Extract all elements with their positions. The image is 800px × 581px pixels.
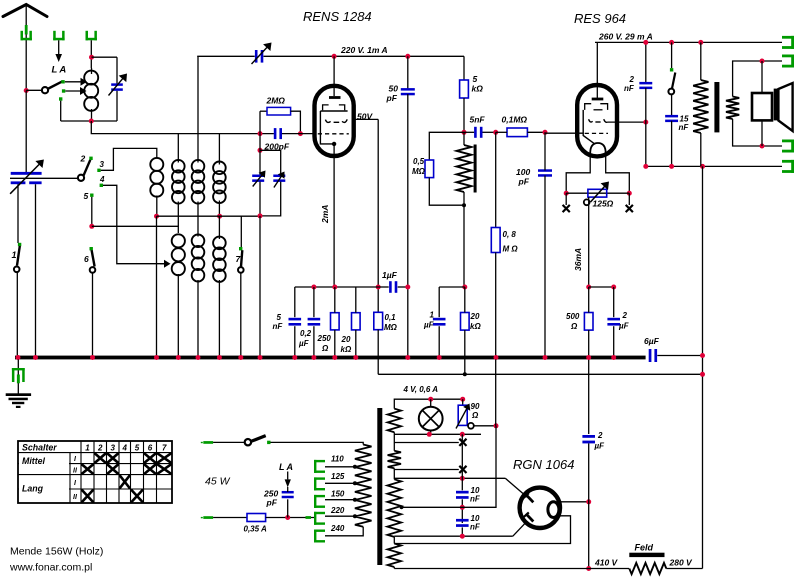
label LA2: [279, 462, 293, 472]
node 1uF1 right: [405, 285, 410, 290]
resistor R-08M: [491, 228, 500, 253]
wire 02uF leads: [313, 287, 315, 356]
svg-text:6: 6: [84, 254, 89, 264]
node wiper: [494, 423, 499, 428]
cap 250pF: [282, 491, 294, 498]
node RENS plate: [332, 54, 337, 59]
RENS screen corner L: [323, 105, 329, 110]
resistor R-250: [331, 313, 340, 330]
node bus junction: [494, 355, 499, 360]
cap 6uF: [649, 349, 657, 362]
wire 2nF upper: [645, 42, 647, 83]
trimmer C-ant arrow: [109, 74, 128, 96]
node 464-287: [462, 285, 467, 290]
terminal SPK4: [782, 160, 794, 173]
svg-text:150: 150: [331, 490, 345, 499]
node bus junction: [405, 355, 410, 360]
node fuse dot: [285, 515, 290, 520]
contact S7: [239, 247, 242, 250]
wire tap150: [325, 499, 355, 501]
wire c3 to coilA: [101, 148, 157, 170]
terminal ANT2: [53, 31, 64, 41]
node L2 lamp: [427, 432, 432, 437]
node 5k-5nF: [462, 130, 467, 135]
RES filament dome: [590, 143, 606, 153]
varcap C1 top plate: [11, 172, 42, 175]
Feld bar: [629, 553, 664, 557]
wire 5nF leads: [464, 131, 496, 133]
trafo core: [377, 408, 382, 565]
wire mains to trafo: [271, 442, 364, 444]
RENS cathode dot: [332, 142, 336, 146]
label 100pF: [516, 167, 530, 187]
wire screen down: [377, 119, 379, 312]
svg-text:µF: µF: [298, 339, 310, 348]
switch tone pivot: [668, 89, 674, 95]
node 02uF top: [311, 285, 316, 290]
node coilD bottom: [217, 214, 222, 219]
wire plate line: [646, 165, 782, 167]
cap 2nF: [639, 82, 652, 89]
label 220: [330, 506, 345, 515]
resistor R-01M2: [374, 312, 383, 329]
wire coilB bottom: [177, 202, 179, 227]
svg-text:kΩ: kΩ: [472, 84, 484, 94]
coil A: [150, 158, 163, 197]
svg-text:Mittel: Mittel: [22, 456, 46, 466]
wire 50pF lower: [407, 94, 409, 356]
wire 125 right X: [628, 193, 630, 205]
svg-text:RGN 1064: RGN 1064: [513, 457, 574, 472]
wire tap125: [325, 482, 355, 484]
wire 100pF upper: [544, 132, 546, 170]
svg-text:3: 3: [111, 444, 116, 453]
OT secondary: [726, 97, 739, 120]
coil C: [192, 160, 205, 204]
label 01M2: [384, 313, 398, 332]
label 220V: [340, 45, 388, 55]
plug 240: [314, 530, 325, 543]
Feld choke: [629, 563, 666, 574]
node 2nF top: [643, 40, 648, 45]
label 240: [330, 524, 345, 533]
coil L-ant: [84, 71, 98, 111]
terminal ANT1: [21, 31, 32, 41]
wire antenna down: [25, 5, 27, 91]
svg-text:90: 90: [471, 402, 480, 411]
wire coilE to bus: [177, 274, 179, 356]
svg-text:0, 8: 0, 8: [503, 230, 517, 239]
lamp: [419, 407, 443, 431]
wire fil-bot line: [394, 535, 513, 537]
wire 1uF2 lower: [438, 326, 440, 356]
node Bplus bus: [0, 0, 1, 1]
wire tone top: [671, 42, 673, 68]
wire spk bottom: [761, 120, 763, 146]
label 90: [471, 402, 480, 420]
switch S2 lever: [83, 160, 90, 177]
wire OT primary bottom: [700, 133, 702, 166]
svg-text:20: 20: [341, 335, 351, 344]
wire 08M top: [495, 132, 497, 227]
wire 2uF1 leads: [613, 287, 615, 356]
node filbot 10nF: [460, 534, 465, 539]
node ant junction: [24, 88, 29, 93]
coil L-ant stub top: [91, 68, 93, 74]
node coil top: [89, 55, 94, 60]
node OT top: [698, 40, 703, 45]
RES plate bar: [592, 98, 604, 101]
switch S2 pivot: [78, 175, 84, 181]
label 2mA: [320, 205, 330, 224]
node 374 frame: [700, 372, 705, 377]
wire Bplus lower: [588, 443, 590, 568]
contact S6: [90, 247, 93, 250]
label 200pF: [264, 142, 290, 152]
switch mains pivot: [245, 439, 251, 445]
wire OT primary top: [700, 42, 702, 80]
label 280V: [669, 558, 694, 568]
switch S6 pivot: [90, 267, 96, 273]
switch LA lever: [48, 82, 63, 89]
winding W2: [388, 451, 401, 469]
arrow c4 into coilE: [160, 260, 171, 268]
wire W4 top line: [394, 516, 570, 544]
svg-text:2: 2: [629, 75, 635, 84]
label 150: [331, 490, 345, 499]
wire 10nF mid: [461, 499, 463, 523]
label 2nF: [624, 75, 635, 93]
wire coilF to bus: [197, 280, 199, 356]
wire 0.8M below-bus: [495, 359, 497, 425]
wire 125 left X: [565, 193, 567, 205]
X right: [626, 205, 633, 212]
wire y287 res seg: [589, 286, 614, 288]
contact tone switch: [670, 68, 673, 71]
resistor R-20k2: [461, 313, 470, 331]
speaker bar: [774, 89, 779, 121]
coil D stub: [218, 134, 220, 165]
svg-text:Ω: Ω: [471, 411, 479, 420]
wire 1uF1 leads: [378, 286, 408, 288]
wire coilA bottom: [156, 196, 158, 217]
label 10nF2: [470, 514, 481, 532]
svg-text:3: 3: [100, 160, 105, 169]
svg-text:1: 1: [85, 444, 90, 453]
coil B: [172, 160, 185, 204]
label 250pF: [263, 489, 278, 508]
node screen-287: [376, 285, 381, 290]
wire S6 to bus: [92, 272, 94, 356]
RES screen dash: [594, 109, 603, 111]
svg-text:2: 2: [97, 444, 103, 453]
svg-text:20: 20: [470, 312, 480, 321]
wire coilG to bus: [218, 280, 220, 356]
wire W4 bottom: [393, 567, 395, 569]
wire 05M bottom: [429, 178, 464, 206]
wire coilA to bus: [156, 216, 158, 356]
node c5 line: [89, 224, 94, 229]
switch mains lever: [251, 436, 265, 442]
switch S1 lever: [17, 246, 20, 266]
svg-text:pF: pF: [386, 93, 398, 103]
svg-text:L A: L A: [279, 462, 293, 472]
RGN filament tick2: [524, 512, 534, 521]
node bus left1: [16, 355, 21, 360]
label 1: [12, 250, 17, 260]
wire antenna to varcap: [25, 91, 27, 173]
label Mende: [10, 546, 103, 558]
plug 125: [314, 477, 325, 490]
wire OT sec bottom: [733, 119, 782, 146]
label 7: [236, 254, 242, 264]
RENS plate bar: [329, 96, 341, 99]
label 2MOhm: [266, 96, 286, 106]
svg-text:pF: pF: [518, 177, 530, 187]
svg-text:µF: µF: [618, 322, 630, 331]
resistor R-5k: [460, 80, 469, 98]
cap 5nF2: [289, 318, 302, 326]
node bus junction: [292, 355, 297, 360]
svg-text:1: 1: [430, 311, 435, 320]
label RES964: [574, 11, 626, 26]
RENS cathode lead: [320, 111, 333, 144]
wire fil-bot diag: [513, 521, 528, 536]
node plate line left: [643, 164, 648, 169]
svg-text:nF: nF: [679, 123, 690, 132]
node spk bottom: [760, 144, 765, 149]
svg-text:nF: nF: [624, 84, 635, 93]
node 125 right: [627, 191, 632, 196]
label RENS1284: [303, 9, 372, 24]
trimmer C-ant: [111, 83, 123, 91]
wire varcap left down: [17, 184, 19, 243]
wire 2M box left: [259, 111, 261, 133]
cap 10nF-1: [456, 491, 469, 499]
label 4: [99, 175, 105, 184]
wire L2 lampline: [394, 433, 481, 435]
RES screen corner R: [600, 104, 607, 110]
switch S7 lever: [241, 250, 242, 266]
svg-text:7: 7: [162, 444, 167, 453]
wire W2-W3 link: [393, 470, 395, 480]
svg-text:4: 4: [99, 175, 105, 184]
node trimmer top: [258, 148, 263, 153]
svg-text:280 V: 280 V: [669, 558, 694, 568]
node tap 125: [353, 481, 357, 485]
wire lamp stubs: [430, 399, 432, 434]
wire grid RES: [545, 132, 584, 135]
cap 100pF: [538, 169, 552, 176]
wire bottom line right: [666, 568, 702, 570]
contact S2-2: [89, 157, 92, 160]
resistor R-2M: [267, 107, 291, 115]
svg-text:4: 4: [122, 444, 128, 453]
wire 1uF2 upper: [438, 287, 440, 317]
wire 464 down: [463, 205, 465, 287]
wire 20k1 leads: [355, 287, 357, 356]
wire line374: [378, 373, 702, 375]
label 5nF2: [273, 313, 284, 331]
node sw-tone top: [669, 40, 674, 45]
node W3 tap: [400, 505, 404, 509]
varcap C1 bottom plates: [11, 181, 42, 184]
trimmer C-fb arrow: [252, 43, 272, 65]
svg-text:L A: L A: [52, 65, 67, 76]
wire 5k top: [463, 56, 465, 80]
plug 110: [314, 460, 325, 473]
node bus junction: [176, 355, 181, 360]
switch table Schalter: [18, 441, 172, 503]
arrow LA2: [285, 472, 291, 488]
RENS grid dashes: [318, 133, 349, 135]
node 90ohm top: [460, 397, 465, 402]
wire 5k bottom: [463, 98, 465, 132]
node 500 top: [586, 285, 591, 290]
label 125: [593, 199, 614, 209]
svg-text:Schalter: Schalter: [22, 443, 57, 453]
label 3: [100, 160, 105, 169]
svg-text:II: II: [73, 494, 78, 501]
earth terminal: [12, 368, 25, 382]
wire X1 line: [394, 442, 459, 444]
svg-text:M Ω: M Ω: [503, 245, 519, 254]
trimmer T2 arrow: [274, 172, 285, 188]
wire y287 right seg: [439, 286, 465, 288]
wire T2 bottom: [260, 182, 281, 216]
svg-text:nF: nF: [470, 495, 481, 504]
svg-text:MΩ: MΩ: [412, 167, 426, 176]
wire S7 to bus: [240, 272, 242, 356]
RENS screen line: [320, 110, 347, 112]
wire fil-top diag: [505, 478, 527, 497]
node bus junction: [196, 355, 201, 360]
wire T2 branch top: [260, 150, 281, 175]
node 250 top: [332, 285, 337, 290]
label 2uF2: [594, 431, 606, 451]
wire 260V line: [595, 41, 782, 43]
wire T1 top: [259, 134, 261, 175]
wire RENS topcap: [333, 56, 335, 96]
RGN anode bump: [548, 502, 559, 518]
node tap 110: [353, 465, 357, 469]
wire 50pF upper: [407, 56, 409, 89]
X left: [563, 205, 570, 212]
wire coilD to sw7: [240, 216, 242, 247]
svg-text:5: 5: [473, 74, 478, 84]
wire terminal3 down: [90, 40, 92, 68]
node 6uF frame: [700, 353, 705, 358]
svg-text:5: 5: [277, 313, 282, 322]
label 5: [84, 191, 89, 201]
wire grid to tube: [282, 133, 316, 135]
svg-text:Lang: Lang: [22, 484, 44, 494]
varcap C1 arrow: [10, 160, 44, 194]
label 5nF: [470, 115, 486, 125]
wire RENS cathode down: [333, 144, 335, 287]
node bus junction: [90, 355, 95, 360]
svg-text:125Ω: 125Ω: [593, 199, 614, 209]
wire RES legs: [566, 153, 629, 193]
speaker box: [752, 93, 772, 120]
node tap 220: [353, 514, 357, 518]
svg-text:Ω: Ω: [321, 344, 329, 353]
wire y216 line: [157, 215, 261, 217]
svg-text:Ω: Ω: [570, 322, 578, 331]
wire X2 line: [394, 468, 459, 469]
label 5k: [472, 74, 484, 94]
cap 15nF: [665, 115, 678, 122]
node coil bottom: [89, 119, 94, 124]
svg-text:220 V. 1m A: 220 V. 1m A: [340, 45, 388, 55]
wire 2M lead: [260, 110, 267, 112]
plug 150: [314, 495, 325, 508]
wire mains2: [213, 517, 247, 519]
node 50pF top: [405, 54, 410, 59]
wire 20k2 top: [464, 287, 466, 313]
svg-text:RES 964: RES 964: [574, 11, 626, 26]
label 45W: [205, 476, 231, 488]
arrow LA down: [55, 54, 62, 62]
wire mains sw: [213, 441, 244, 443]
node tap 150: [353, 498, 357, 502]
label 4V06A: [403, 385, 439, 394]
wire fil-top line: [394, 477, 505, 479]
svg-text:250: 250: [317, 334, 332, 343]
wire tap220: [325, 515, 355, 517]
svg-text:6: 6: [148, 444, 153, 453]
coil B stub: [177, 134, 179, 163]
wire 125 line: [566, 192, 629, 194]
label 50V: [357, 111, 373, 121]
node bus junction: [543, 355, 548, 360]
wire 10nF bottom: [461, 527, 463, 536]
green tick 220: [306, 516, 312, 519]
trimmer T1 arrow: [253, 171, 266, 187]
wire spk top: [761, 61, 763, 93]
node 5nF right: [493, 130, 498, 135]
svg-text:220: 220: [330, 506, 345, 515]
wire T1 to bus: [259, 216, 261, 356]
svg-text:36mA: 36mA: [573, 248, 583, 271]
label 01M: [502, 115, 528, 125]
svg-text:µF: µF: [594, 442, 606, 451]
svg-text:500: 500: [566, 312, 580, 321]
label 110: [331, 455, 344, 464]
label 260V: [598, 32, 653, 42]
svg-text:410 V: 410 V: [594, 558, 619, 568]
wire varcap to sw2: [10, 177, 78, 179]
node bus junction: [353, 355, 358, 360]
wire 2M right: [291, 111, 301, 133]
contact S2-4: [100, 184, 103, 187]
label 36mA: [573, 248, 583, 271]
pot bar: [474, 145, 477, 193]
label 2: [80, 154, 86, 164]
contact mains: [267, 441, 270, 444]
wire box top: [92, 56, 118, 58]
trafo primary: [355, 445, 372, 527]
node grid right: [298, 131, 303, 136]
plug 220: [314, 512, 325, 525]
label 50pF: [386, 84, 399, 104]
svg-text:kΩ: kΩ: [341, 345, 352, 354]
svg-text:5: 5: [84, 191, 89, 201]
node lamp top: [428, 397, 433, 402]
resistor R-20k1: [352, 313, 361, 330]
wire box right lower: [116, 91, 118, 121]
svg-text:2: 2: [597, 431, 603, 440]
